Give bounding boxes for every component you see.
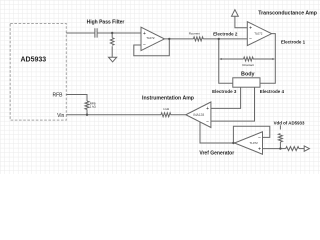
svg-text:Body: Body bbox=[241, 72, 254, 78]
svg-text:Electrode 4: Electrode 4 bbox=[260, 89, 285, 94]
svg-text:INA128: INA128 bbox=[193, 113, 204, 117]
svg-text:Rcontact: Rcontact bbox=[242, 63, 254, 67]
svg-text:−: − bbox=[249, 37, 252, 43]
svg-text:1 kΩ: 1 kΩ bbox=[163, 107, 170, 111]
svg-text:+: + bbox=[206, 106, 209, 112]
svg-text:−: − bbox=[206, 119, 209, 125]
svg-text:TL072: TL072 bbox=[146, 36, 155, 40]
svg-text:−: − bbox=[143, 43, 146, 49]
svg-text:TL072: TL072 bbox=[250, 141, 259, 145]
svg-text:−: − bbox=[258, 135, 261, 141]
svg-text:+: + bbox=[143, 31, 146, 37]
svg-text:+: + bbox=[258, 146, 261, 152]
svg-text:1 kΩ: 1 kΩ bbox=[90, 105, 97, 109]
svg-text:+: + bbox=[249, 25, 252, 31]
svg-text:RFB: RFB bbox=[53, 93, 64, 99]
svg-text:High Pass Filter: High Pass Filter bbox=[87, 19, 125, 25]
svg-text:Vref Generator: Vref Generator bbox=[199, 150, 234, 156]
svg-text:Electrode 1: Electrode 1 bbox=[281, 40, 306, 45]
svg-text:Vdd of AD5933: Vdd of AD5933 bbox=[274, 121, 305, 126]
svg-text:Instrumentation Amp: Instrumentation Amp bbox=[142, 95, 194, 101]
svg-text:TL072: TL072 bbox=[254, 31, 263, 35]
svg-text:Rcurrent: Rcurrent bbox=[189, 32, 200, 36]
svg-text:Transconductance Amp: Transconductance Amp bbox=[258, 11, 317, 17]
svg-text:Electrode 2: Electrode 2 bbox=[213, 31, 238, 36]
svg-text:AD5933: AD5933 bbox=[20, 57, 46, 64]
svg-text:Vin: Vin bbox=[57, 113, 64, 119]
svg-text:Electrode 3: Electrode 3 bbox=[212, 89, 237, 94]
